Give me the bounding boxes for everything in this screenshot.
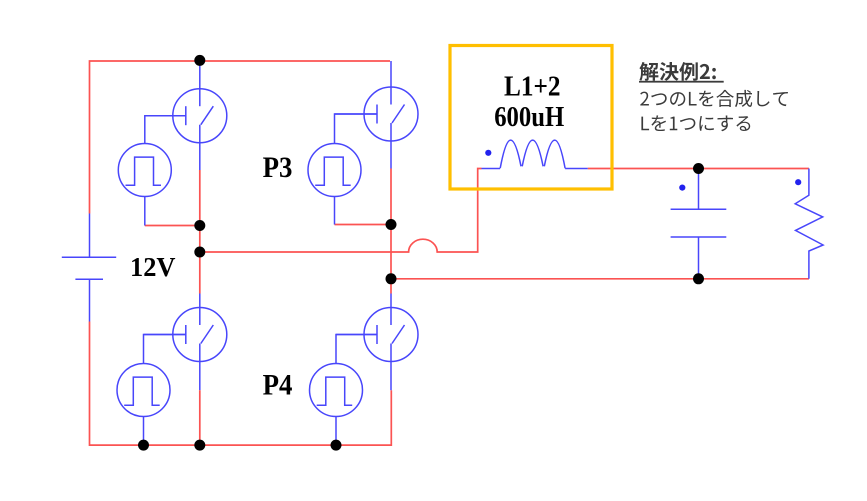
svg-text:P3: P3 — [263, 152, 293, 184]
svg-text:12V: 12V — [130, 251, 176, 282]
svg-text:P4: P4 — [263, 370, 293, 402]
svg-text:L1+2: L1+2 — [504, 71, 561, 103]
svg-text:600uH: 600uH — [494, 102, 564, 133]
